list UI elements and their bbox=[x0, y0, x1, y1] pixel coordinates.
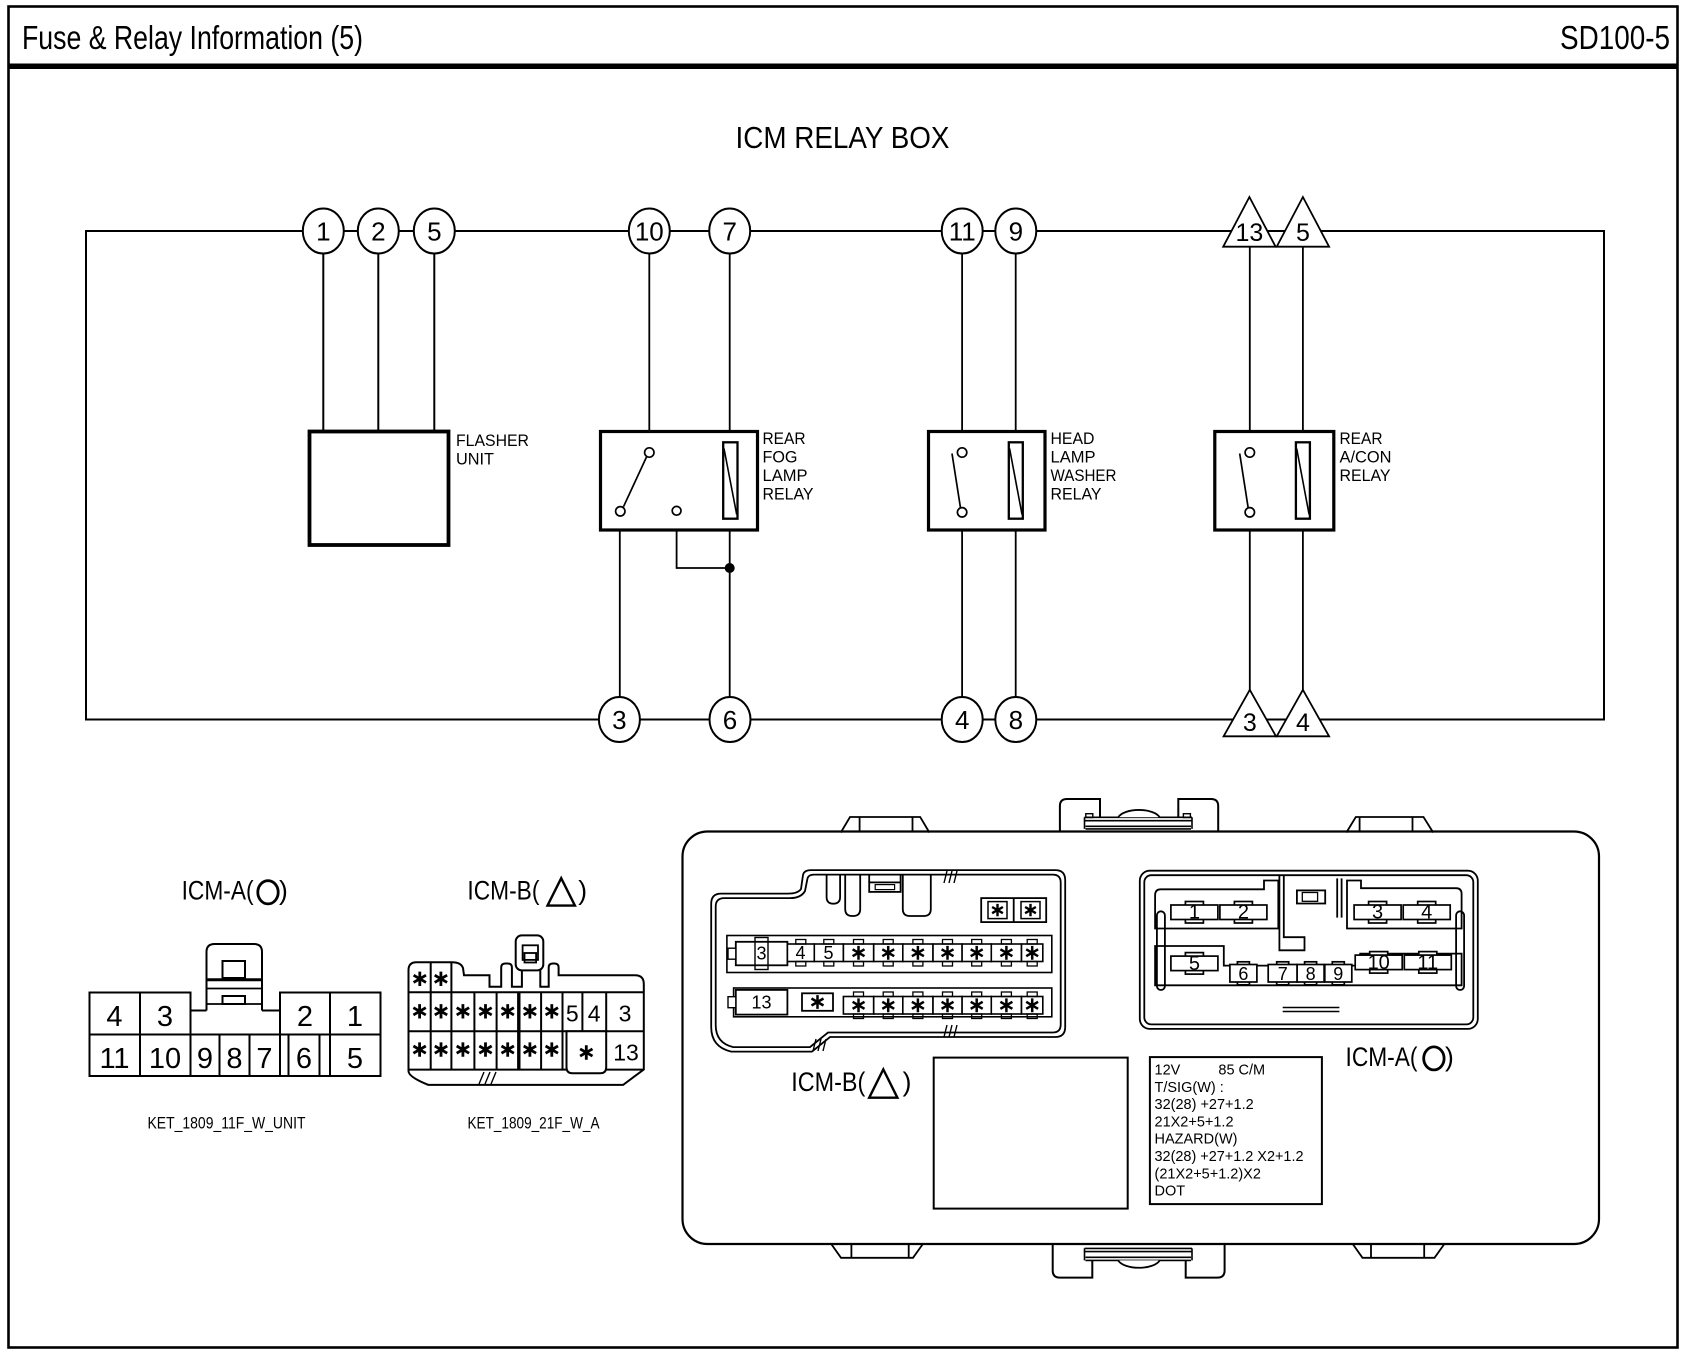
svg-text:1: 1 bbox=[347, 1001, 363, 1033]
svg-text:REAR: REAR bbox=[763, 429, 806, 448]
node 3 triangle bottom bbox=[1224, 690, 1276, 737]
label ICM-A (connector) bbox=[182, 876, 288, 906]
svg-text:ICM-B(: ICM-B( bbox=[791, 1067, 865, 1097]
svg-text:A/CON: A/CON bbox=[1340, 447, 1392, 466]
svg-text:32(28) +27+1.2 X2+1.2: 32(28) +27+1.2 X2+1.2 bbox=[1155, 1149, 1304, 1165]
svg-text:10: 10 bbox=[635, 216, 664, 246]
svg-text:RELAY: RELAY bbox=[1340, 466, 1391, 485]
node 13 triangle bbox=[1223, 197, 1275, 247]
washer relay coil bbox=[1009, 442, 1023, 518]
svg-text:8: 8 bbox=[1306, 964, 1316, 984]
svg-text:3: 3 bbox=[619, 1001, 632, 1027]
wire washer relay coil to pin8 bbox=[1015, 519, 1017, 698]
svg-text:8: 8 bbox=[226, 1043, 242, 1075]
svg-text:5: 5 bbox=[347, 1043, 363, 1075]
relay box: rear fog lamp bbox=[601, 432, 758, 531]
svg-text:13: 13 bbox=[751, 993, 771, 1013]
svg-text:5: 5 bbox=[427, 216, 441, 246]
wire pin7 to fog relay coil bbox=[729, 252, 731, 442]
wire pin5b to acon relay coil bbox=[1302, 246, 1304, 442]
svg-text:4: 4 bbox=[588, 1001, 601, 1027]
svg-text:9: 9 bbox=[1333, 964, 1343, 984]
svg-text:21X2+5+1.2: 21X2+5+1.2 bbox=[1155, 1114, 1234, 1130]
fog relay switch bbox=[616, 448, 681, 516]
node 9 bbox=[995, 209, 1036, 254]
svg-text:12V: 12V bbox=[1155, 1063, 1181, 1079]
fuse box bottom tabs bbox=[832, 1245, 1444, 1258]
fuse box top tabs bbox=[841, 817, 1433, 833]
svg-text:ICM-B(: ICM-B( bbox=[467, 876, 539, 906]
svg-text:LAMP: LAMP bbox=[763, 466, 808, 485]
svg-text:13: 13 bbox=[1235, 219, 1263, 247]
connector ICM-A body bbox=[90, 944, 381, 1076]
wire fog relay NO contact down bbox=[677, 515, 730, 568]
wire pin9 to washer relay coil bbox=[1015, 252, 1017, 442]
washer relay switch bbox=[952, 448, 967, 517]
fog relay coil bbox=[723, 442, 737, 518]
ICM relay box outline bbox=[86, 231, 1604, 720]
svg-text:8: 8 bbox=[1009, 705, 1023, 735]
wire fog relay switch to pin3 bbox=[619, 516, 621, 698]
svg-text:4: 4 bbox=[1421, 902, 1432, 924]
svg-text:HAZARD(W): HAZARD(W) bbox=[1155, 1132, 1238, 1148]
svg-text:1: 1 bbox=[316, 216, 330, 246]
svg-text:7: 7 bbox=[1278, 964, 1288, 984]
wire pin10 to fog relay switch bbox=[648, 252, 650, 447]
svg-text:32(28) +27+1.2: 32(28) +27+1.2 bbox=[1155, 1097, 1254, 1113]
svg-text:6: 6 bbox=[723, 705, 737, 735]
svg-text:LAMP: LAMP bbox=[1051, 447, 1096, 466]
junction dot bbox=[725, 563, 735, 573]
svg-text:5: 5 bbox=[823, 943, 833, 963]
acon relay switch bbox=[1240, 448, 1255, 517]
svg-text:11: 11 bbox=[99, 1043, 129, 1075]
svg-text:10: 10 bbox=[1368, 952, 1390, 974]
wire pin1 to flasher bbox=[322, 252, 324, 432]
label KET_1809_21F_W_A bbox=[468, 1114, 601, 1133]
ICM-A face pins bbox=[1171, 902, 1451, 985]
node 4 triangle bottom bbox=[1277, 690, 1329, 737]
svg-text:2: 2 bbox=[371, 216, 385, 246]
label REAR A/CON RELAY bbox=[1340, 429, 1392, 485]
wire fog relay coil to pin6 bbox=[729, 519, 731, 698]
svg-text:4: 4 bbox=[955, 705, 969, 735]
node 10 bbox=[629, 209, 670, 254]
wire pin2 to flasher bbox=[377, 252, 379, 432]
svg-text:7: 7 bbox=[722, 216, 736, 246]
wire acon relay switch to pin3b bbox=[1249, 517, 1251, 691]
svg-text:Fuse & Relay Information (5): Fuse & Relay Information (5) bbox=[22, 19, 363, 56]
node 8 bbox=[995, 697, 1036, 742]
connector ICM-B face on fuse box bbox=[711, 870, 1065, 1052]
fuse box bottom mount bracket bbox=[1053, 1245, 1225, 1278]
svg-text:RELAY: RELAY bbox=[763, 484, 814, 503]
wire pin5 to flasher bbox=[433, 252, 435, 432]
svg-text:): ) bbox=[578, 876, 587, 906]
svg-text:3: 3 bbox=[1372, 902, 1383, 924]
label HEAD LAMP WASHER RELAY bbox=[1051, 429, 1117, 504]
flasher unit box bbox=[310, 432, 449, 546]
svg-text:9: 9 bbox=[197, 1043, 213, 1075]
node 6 bbox=[710, 697, 751, 742]
label REAR FOG LAMP RELAY bbox=[763, 429, 814, 504]
wire pin13 to acon relay switch bbox=[1249, 246, 1251, 448]
svg-text:(21X2+5+1.2)X2: (21X2+5+1.2)X2 bbox=[1155, 1166, 1261, 1182]
label ICM-B on fuse box bbox=[791, 1067, 911, 1098]
ICM-B face row 2 bbox=[728, 988, 1052, 1019]
connector ICM-B body bbox=[409, 935, 644, 1085]
svg-text:): ) bbox=[903, 1067, 912, 1097]
fuse box body bbox=[683, 832, 1600, 1245]
svg-text:UNIT: UNIT bbox=[456, 450, 494, 469]
ICM-A pin numbers bbox=[99, 1001, 363, 1075]
svg-text:2: 2 bbox=[1238, 902, 1249, 924]
svg-text:4: 4 bbox=[1296, 709, 1310, 737]
acon relay coil bbox=[1296, 442, 1310, 518]
label ICM-B (connector) bbox=[467, 876, 587, 906]
label FLASHER UNIT bbox=[456, 431, 529, 469]
title: SD100-5 bbox=[1560, 19, 1670, 56]
svg-text:3: 3 bbox=[1243, 709, 1257, 737]
svg-text:5: 5 bbox=[1189, 953, 1200, 975]
wire pin11 to washer relay switch bbox=[961, 252, 963, 448]
node 1 bbox=[303, 209, 344, 254]
svg-text:5: 5 bbox=[1296, 219, 1310, 247]
svg-text:ICM RELAY BOX: ICM RELAY BOX bbox=[736, 120, 950, 155]
node 2 bbox=[358, 209, 399, 254]
node 3 bbox=[599, 697, 640, 742]
relay box: rear a/con bbox=[1215, 432, 1334, 531]
svg-text:ICM-A(: ICM-A( bbox=[1346, 1042, 1418, 1072]
svg-text:9: 9 bbox=[1009, 216, 1023, 246]
svg-text:11: 11 bbox=[1417, 952, 1438, 974]
blank box bbox=[934, 1058, 1128, 1209]
svg-text:): ) bbox=[1445, 1042, 1454, 1072]
svg-text:REAR: REAR bbox=[1340, 429, 1383, 448]
svg-text:): ) bbox=[279, 876, 288, 906]
fuse box top mount bracket bbox=[1060, 799, 1218, 832]
ICM-B stars and numbers bbox=[413, 972, 638, 1066]
svg-text:KET_1809_21F_W_A: KET_1809_21F_W_A bbox=[468, 1114, 601, 1133]
svg-text:FOG: FOG bbox=[763, 447, 798, 466]
svg-text:DOT: DOT bbox=[1155, 1184, 1186, 1200]
svg-text:FLASHER: FLASHER bbox=[456, 431, 529, 450]
svg-text:ICM-A(: ICM-A( bbox=[182, 876, 254, 906]
svg-text:10: 10 bbox=[149, 1043, 181, 1075]
node 11 bbox=[942, 209, 983, 254]
node 4 bbox=[942, 697, 983, 742]
svg-text:6: 6 bbox=[1238, 964, 1248, 984]
svg-text:1: 1 bbox=[1189, 902, 1200, 924]
label KET_1809_11F_W_UNIT bbox=[148, 1114, 306, 1133]
svg-text:3: 3 bbox=[756, 944, 766, 964]
spec table bbox=[1150, 1057, 1322, 1204]
svg-text:WASHER: WASHER bbox=[1051, 466, 1117, 485]
svg-text:3: 3 bbox=[612, 705, 626, 735]
svg-text:RELAY: RELAY bbox=[1051, 484, 1102, 503]
svg-text:SD100-5: SD100-5 bbox=[1560, 19, 1670, 56]
svg-text:7: 7 bbox=[256, 1043, 272, 1075]
svg-text:T/SIG(W) :: T/SIG(W) : bbox=[1155, 1080, 1224, 1096]
wire washer relay switch to pin4 bbox=[961, 517, 963, 698]
wire acon relay coil to pin4b bbox=[1302, 519, 1304, 691]
connector ICM-A face on fuse box bbox=[1140, 871, 1478, 1029]
svg-text:13: 13 bbox=[613, 1040, 639, 1066]
relay box: head lamp washer bbox=[929, 432, 1046, 531]
svg-text:HEAD: HEAD bbox=[1051, 429, 1095, 448]
label ICM-A on fuse box bbox=[1346, 1042, 1454, 1072]
svg-text:3: 3 bbox=[157, 1001, 173, 1033]
svg-text:4: 4 bbox=[106, 1001, 122, 1033]
node 7 bbox=[709, 209, 750, 254]
svg-text:85 C/M: 85 C/M bbox=[1218, 1063, 1265, 1079]
ICM-B face row 1 bbox=[727, 936, 1052, 973]
svg-text:11: 11 bbox=[949, 216, 976, 246]
node 5 bbox=[414, 209, 455, 254]
svg-text:6: 6 bbox=[296, 1043, 312, 1075]
node 5 triangle top bbox=[1277, 197, 1329, 247]
title: Fuse &amp; Relay Information (5) bbox=[22, 19, 363, 56]
svg-text:KET_1809_11F_W_UNIT: KET_1809_11F_W_UNIT bbox=[148, 1114, 306, 1133]
svg-text:2: 2 bbox=[297, 1001, 313, 1033]
svg-text:4: 4 bbox=[795, 943, 805, 963]
svg-text:5: 5 bbox=[566, 1001, 579, 1027]
label ICM RELAY BOX bbox=[736, 120, 950, 155]
